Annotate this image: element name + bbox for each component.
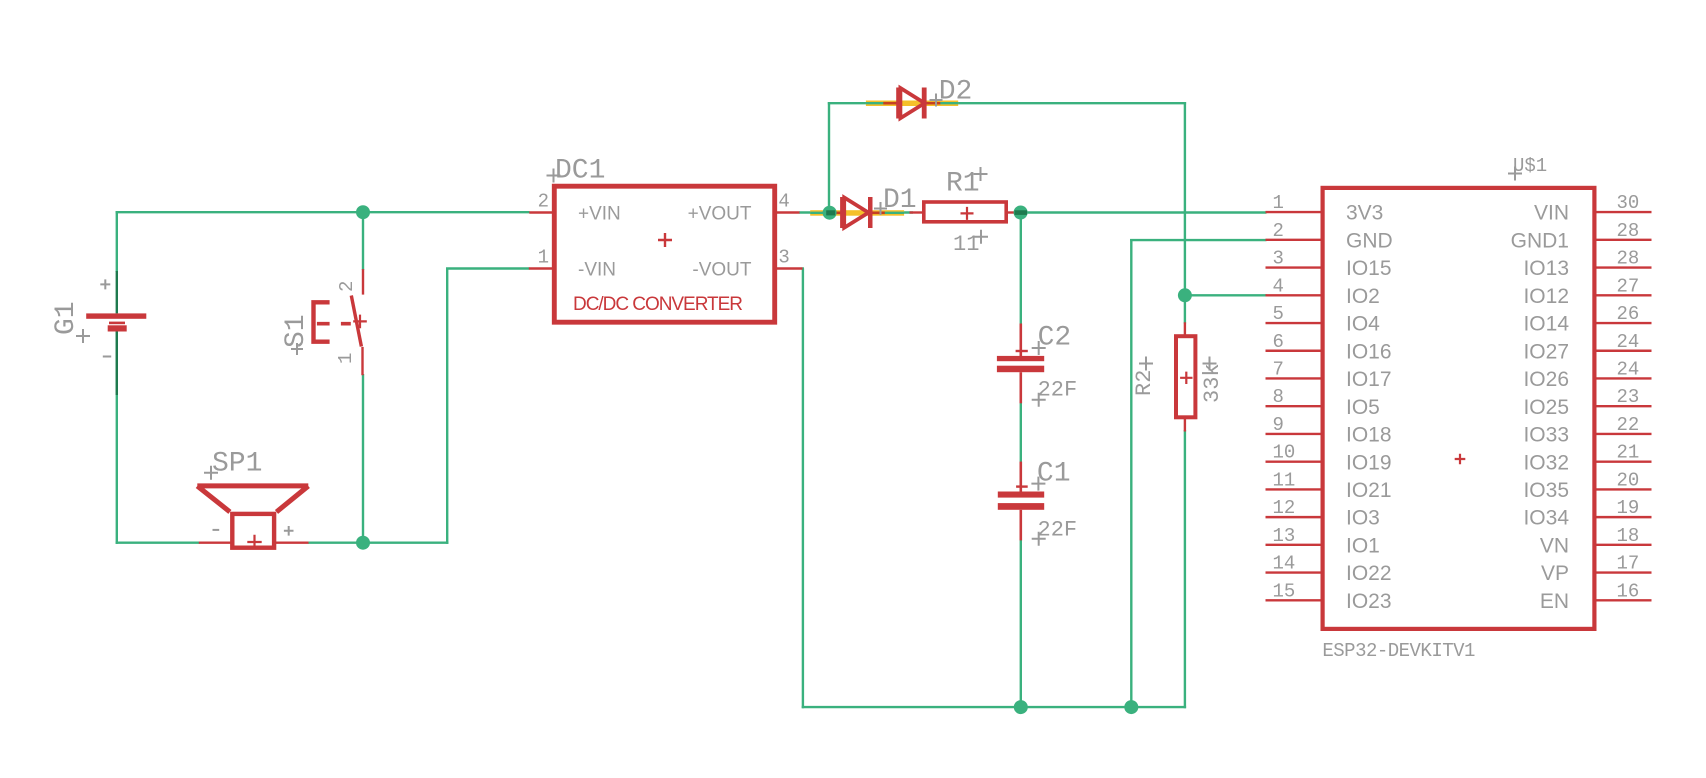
diode D1 triangle (844, 198, 868, 228)
ESP32 pin 26 line (right) (1594, 322, 1651, 324)
speaker SP1 name origin cross (204, 466, 218, 480)
svg-text:21: 21 (1617, 442, 1640, 464)
junction at IO2 row (1178, 288, 1192, 302)
capacitor C2 bottom plate (997, 366, 1044, 373)
resistor R2 body (1176, 336, 1195, 417)
ESP32 pin 30 line (right) (1594, 211, 1651, 213)
speaker SP1 body box (232, 514, 274, 548)
ESP32 origin cross (red) (1455, 454, 1466, 465)
wire N3 S1 pin 1 vertical (362, 374, 364, 544)
svg-text:+VOUT: +VOUT (688, 203, 752, 224)
diode D2 origin cross (930, 94, 943, 107)
svg-text:VIN: VIN (1534, 202, 1569, 225)
svg-text:24: 24 (1617, 358, 1640, 380)
svg-text:19: 19 (1617, 497, 1640, 519)
svg-text:GND: GND (1346, 229, 1393, 252)
junction ground rail at C1 (1014, 700, 1028, 714)
DC1 name origin cross (547, 169, 561, 183)
svg-text:17: 17 (1617, 553, 1640, 575)
svg-text:14: 14 (1273, 553, 1296, 575)
svg-text:VP: VP (1541, 562, 1569, 585)
svg-text:3V3: 3V3 (1346, 202, 1383, 225)
diode D1 wire over band right (884, 212, 904, 214)
svg-text:11: 11 (1273, 469, 1296, 491)
ESP32 pin 2 line (1266, 239, 1323, 241)
diode D1 cathode bar (868, 197, 873, 228)
junction dark stripe D1 (826, 210, 835, 215)
wire N6 down to C2 (1020, 213, 1022, 325)
svg-text:3: 3 (1273, 248, 1284, 270)
ESP32 pin 15 line (1266, 599, 1323, 601)
resistor R2 top pin (red) (1184, 322, 1186, 336)
battery G1 short plate (108, 325, 127, 331)
ESP32 pin 3 line (1266, 266, 1323, 268)
DC1 pin 1 stub (red) (529, 267, 553, 269)
svg-text:33k: 33k (1200, 363, 1225, 403)
ESP32 pin 16 line (right) (1594, 599, 1651, 601)
svg-text:GND1: GND1 (1511, 229, 1569, 252)
diode D2 wire over band left (866, 102, 896, 104)
ESP32 pin 1 line (1266, 211, 1323, 213)
svg-text:IO22: IO22 (1346, 562, 1392, 585)
svg-text:16: 16 (1617, 580, 1640, 602)
ESP32 pin 11 line (1266, 488, 1323, 490)
wire N4 from DC1 pin 4 (799, 211, 842, 213)
resistor R1 body (924, 202, 1006, 222)
speaker SP1 cone (197, 486, 308, 512)
svg-text:IO17: IO17 (1346, 368, 1392, 391)
ESP32 pin 6 line (1266, 350, 1323, 352)
wire N1 branch to S1 pin 2 (362, 212, 364, 270)
svg-text:5: 5 (1273, 303, 1284, 325)
svg-text:2: 2 (538, 191, 549, 213)
ESP32 pin 20 line (right) (1594, 488, 1651, 490)
ESP32 pin 28 line (right) (1594, 266, 1651, 268)
svg-text:IO1: IO1 (1346, 534, 1380, 557)
capacitor C2 top pin (red) (1019, 324, 1022, 357)
resistor R1 right pin (red) (1006, 211, 1016, 213)
wire N3 speaker to corner (308, 542, 448, 544)
ESP32 pin 19 line (right) (1594, 516, 1651, 518)
ESP32 U$1 box (1323, 188, 1595, 629)
diode D1 wire over band left (810, 212, 840, 214)
wire N4 vertical up to D2 (828, 102, 830, 214)
wire N6 to ESP32 pin 1 3V3 (1021, 211, 1267, 213)
battery G1 plus mark (100, 279, 110, 289)
ESP32 pin 10 line (1266, 460, 1323, 462)
svg-text:7: 7 (1273, 358, 1284, 380)
svg-text:1: 1 (538, 247, 549, 269)
ESP32 pin 14 line (1266, 571, 1323, 573)
resistor R2 origin cross (red) (1180, 372, 1192, 384)
svg-text:2: 2 (1273, 220, 1284, 242)
svg-text:IO12: IO12 (1523, 285, 1569, 308)
junction ground rail at GND wire (1124, 700, 1138, 714)
svg-text:DC/DC CONVERTER: DC/DC CONVERTER (573, 294, 743, 315)
svg-text:IO4: IO4 (1346, 313, 1380, 336)
wire N5 D1 cathode to R1 (884, 211, 914, 213)
ESP32 pin 21 line (right) (1594, 460, 1651, 462)
svg-text:IO35: IO35 (1523, 479, 1569, 502)
switch S1 lever (351, 296, 361, 347)
switch S1 origin cross (red) (353, 315, 367, 329)
junction at D1 anode (823, 206, 837, 220)
svg-text:27: 27 (1617, 275, 1640, 297)
switch S1 pin 1 (red) (361, 347, 363, 375)
svg-text:IO14: IO14 (1523, 313, 1569, 336)
capacitor C2 bottom pin (red) (1019, 372, 1022, 403)
svg-text:VN: VN (1540, 534, 1569, 557)
junction at R1 right (1014, 206, 1028, 220)
diode D2 highlight band (866, 101, 958, 107)
diode D2 cathode pin (red) (927, 102, 941, 105)
svg-text:28: 28 (1617, 220, 1640, 242)
svg-text:30: 30 (1617, 192, 1640, 214)
capacitor C1 name origin cross (1031, 477, 1045, 491)
capacitor C2 value origin cross (1032, 393, 1046, 407)
svg-text:8: 8 (1273, 386, 1284, 408)
ESP32 pin 4 line (1266, 294, 1323, 296)
battery G1 top pin (dark) (116, 271, 118, 313)
wire N8 DC1 pin 3 horizontal (802, 267, 804, 269)
switch S1 name origin cross (291, 343, 303, 355)
wire N1 battery plus vertical (116, 211, 118, 272)
junction bottom rail at S1 (356, 536, 370, 550)
svg-text:ESP32-DEVKITV1: ESP32-DEVKITV1 (1322, 640, 1475, 662)
resistor R1 name origin cross (974, 167, 988, 181)
speaker SP1 plus mark (284, 526, 294, 536)
svg-text:IO27: IO27 (1523, 340, 1569, 363)
svg-text:IO15: IO15 (1346, 257, 1392, 280)
ESP32 pin 18 line (right) (1594, 544, 1651, 546)
capacitor C2 top plate (997, 356, 1044, 361)
battery G1 minus mark (103, 356, 111, 358)
diode D2 wire over band right (940, 102, 958, 104)
wire N1 top rail horizontal (116, 211, 530, 213)
resistor R1 origin cross (red) (961, 207, 974, 220)
capacitor C1 top plate (998, 492, 1044, 498)
ESP32 pin 28 line (right) (1594, 239, 1651, 241)
svg-text:IO2: IO2 (1346, 285, 1380, 308)
svg-text:-VOUT: -VOUT (692, 259, 752, 280)
diode D1 cathode pin (red) (872, 212, 885, 215)
diode D2 triangle (900, 88, 924, 118)
resistor R2 bottom pin (red) (1184, 418, 1186, 432)
wire down to R2 top (1184, 295, 1186, 323)
ESP32 pin 22 line (right) (1594, 433, 1651, 435)
ESP32 pin 17 line (right) (1594, 571, 1651, 573)
ESP32 pin 12 line (1266, 516, 1323, 518)
capacitor C2 plus tick (red) (1016, 350, 1028, 352)
diode D2 cathode bar (922, 88, 927, 119)
junction top rail at S1 (356, 205, 370, 219)
battery G1 thin plate (109, 322, 125, 325)
ESP32 pin 8 line (1266, 405, 1323, 407)
svg-text:IO16: IO16 (1346, 340, 1392, 363)
speaker SP1 left pin (red) (199, 542, 231, 544)
DC1 origin cross (red) (658, 233, 672, 247)
capacitor C1 plus tick (red) (1016, 485, 1028, 487)
diode D2 anode bar (896, 88, 900, 119)
svg-text:23: 23 (1617, 386, 1640, 408)
diode D1 pin into R1 (red) (910, 211, 924, 213)
DC1 pin 3 stub (red) (776, 267, 803, 269)
svg-text:15: 15 (1273, 580, 1296, 602)
svg-text:28: 28 (1617, 248, 1640, 270)
svg-text:26: 26 (1617, 303, 1640, 325)
DC1 box (554, 186, 774, 322)
svg-text:IO3: IO3 (1346, 507, 1380, 530)
svg-text:IO32: IO32 (1523, 451, 1569, 474)
svg-text:22: 22 (1617, 414, 1640, 436)
svg-text:D2: D2 (939, 77, 973, 108)
ESP32 pin 7 line (1266, 377, 1323, 379)
wire to ESP32 pin 4 IO2 (1185, 294, 1267, 296)
svg-text:10: 10 (1273, 442, 1296, 464)
svg-text:IO13: IO13 (1523, 257, 1569, 280)
resistor R1 value origin cross (974, 230, 988, 244)
resistor R2 value origin cross (1203, 357, 1217, 371)
junction dark stripe R1 (1015, 210, 1028, 215)
diode D1 highlight band (810, 210, 904, 216)
battery G1 long plate (86, 313, 146, 318)
svg-text:G1: G1 (51, 301, 82, 335)
svg-text:3: 3 (778, 247, 789, 269)
svg-text:C1: C1 (1037, 459, 1071, 490)
svg-text:1: 1 (335, 353, 357, 364)
wire D2 net vertical down (1184, 102, 1186, 296)
switch S1 pin 2 (red) (362, 269, 364, 295)
svg-text:DC1: DC1 (555, 155, 605, 186)
switch S1 bracket (314, 302, 330, 341)
wire N8 below C1 (1020, 540, 1022, 709)
wire D2 cathode east (940, 102, 1187, 104)
ESP32 name origin cross (1508, 167, 1522, 181)
wire N2 bottom rail to speaker (116, 542, 200, 544)
wire N8 bottom rail (802, 706, 1186, 708)
svg-text:IO21: IO21 (1346, 479, 1392, 502)
diode D1 anode pin (red) (834, 212, 844, 215)
svg-text:IO25: IO25 (1523, 396, 1569, 419)
wire N7 between C2 and C1 (1020, 402, 1022, 463)
battery G1 bottom pin (dark) (116, 332, 118, 396)
svg-text:18: 18 (1617, 525, 1640, 547)
svg-text:SP1: SP1 (212, 448, 262, 479)
diode D2 anode pin (red) (883, 102, 900, 105)
ESP32 pin 27 line (right) (1594, 294, 1651, 296)
wire N8 up to ESP32 GND (1130, 239, 1132, 708)
svg-text:6: 6 (1273, 331, 1284, 353)
wire N8 horizontal to ESP32 pin 2 (1130, 239, 1266, 241)
ESP32 pin 9 line (1266, 433, 1323, 435)
svg-text:24: 24 (1617, 331, 1640, 353)
svg-text:13: 13 (1273, 525, 1296, 547)
diode D1 anode bar (840, 197, 844, 228)
wire N2 battery minus vertical (116, 330, 118, 544)
svg-text:4: 4 (778, 191, 789, 213)
ESP32 pin 24 line (right) (1594, 350, 1651, 352)
svg-text:IO18: IO18 (1346, 424, 1392, 447)
svg-text:IO26: IO26 (1523, 368, 1569, 391)
resistor R2 name origin cross (1139, 357, 1153, 371)
svg-text:1: 1 (1273, 192, 1284, 214)
speaker SP1 origin cross (red) (247, 535, 261, 549)
capacitor C1 bottom pin (red) (1019, 510, 1022, 541)
svg-text:+VIN: +VIN (578, 203, 621, 224)
capacitor C1 top pin (red) (1019, 462, 1022, 492)
capacitor C2 name origin cross (1032, 341, 1046, 355)
svg-text:12: 12 (1273, 497, 1296, 519)
svg-text:IO33: IO33 (1523, 424, 1569, 447)
svg-text:IO19: IO19 (1346, 451, 1392, 474)
ESP32 pin 23 line (right) (1594, 405, 1651, 407)
svg-text:2: 2 (336, 281, 358, 292)
svg-text:EN: EN (1540, 590, 1569, 613)
svg-text:IO23: IO23 (1346, 590, 1392, 613)
svg-text:IO34: IO34 (1523, 507, 1569, 530)
speaker SP1 right pin (red) (276, 542, 309, 544)
ESP32 pin 5 line (1266, 322, 1323, 324)
capacitor C1 value origin cross (1032, 532, 1046, 546)
diode D1 origin cross (874, 202, 887, 215)
wire N3 vertical to DC1 -VIN (446, 269, 448, 544)
wire N3 horizontal to DC1 pin 1 (446, 267, 530, 269)
speaker SP1 minus mark (213, 529, 220, 531)
DC1 pin 2 stub (red) (529, 211, 553, 213)
wire N8 up to DC1 -VOUT (802, 269, 804, 709)
capacitor C1 bottom plate (998, 503, 1044, 510)
svg-text:-VIN: -VIN (578, 259, 616, 280)
switch S1 dashed actuator (317, 322, 351, 326)
svg-text:R2: R2 (1132, 370, 1157, 396)
svg-text:D1: D1 (883, 185, 917, 216)
svg-text:IO5: IO5 (1346, 396, 1380, 419)
ESP32 pin 13 line (1266, 544, 1323, 546)
svg-text:9: 9 (1273, 414, 1284, 436)
svg-text:20: 20 (1617, 469, 1640, 491)
svg-text:S1: S1 (281, 314, 312, 348)
wire N4 horizontal to D2 anode (828, 102, 885, 104)
wire N8 up to R2 bottom (1184, 430, 1186, 708)
DC1 pin 4 stub (red) (776, 211, 800, 213)
ESP32 pin 24 line (right) (1594, 377, 1651, 379)
svg-text:22F: 22F (1038, 377, 1078, 402)
svg-text:4: 4 (1273, 275, 1284, 297)
battery G1 origin cross (76, 329, 90, 343)
